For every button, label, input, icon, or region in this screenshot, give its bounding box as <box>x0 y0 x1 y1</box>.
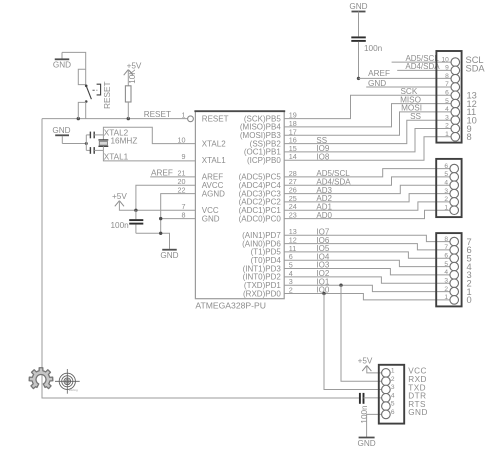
wire: DTR-to-RESET loop (left border + bottom) <box>42 119 360 398</box>
IC top edge <box>194 110 285 112</box>
connector J1 pin 10 <box>451 58 460 67</box>
connector J2 pin 4 <box>450 181 459 190</box>
wire: AD2 from IC to J2 pin 3 <box>284 194 450 202</box>
svg-text:AD4/SDA: AD4/SDA <box>405 62 440 71</box>
svg-text:6: 6 <box>444 253 448 260</box>
connector J3 pin 1 <box>450 296 459 305</box>
svg-text:2: 2 <box>445 123 449 130</box>
svg-text:fritzing: fritzing <box>69 388 78 392</box>
connector J4 pin 6 <box>382 410 391 419</box>
wire: +5V to serial VCC pin 1 <box>367 366 382 373</box>
svg-text:6: 6 <box>391 409 395 416</box>
node: AGND/GND junction <box>159 217 162 220</box>
wire: MOSI from IC pin 17 to ICSP pin 4 <box>284 112 451 135</box>
svg-text:XTAL1: XTAL1 <box>104 153 129 162</box>
svg-text:100n: 100n <box>364 44 383 53</box>
connector J1 pin 9 <box>451 66 460 75</box>
wire: GND to capacitor rail <box>62 143 86 145</box>
wire: pushbutton to RESET net (left leg) <box>78 102 85 118</box>
capacitor C4 100n (AREF) <box>351 12 366 79</box>
wire: IO0 from IC to J3 pin 1 <box>284 294 450 300</box>
connector J1 pin 6 <box>451 91 460 100</box>
wire: IO9 from IC pin 15 to ICSP pin 2 <box>284 129 451 152</box>
svg-text:GND: GND <box>52 126 70 135</box>
svg-text:2: 2 <box>444 196 448 203</box>
pin 1 inversion bubble (RESET) <box>188 116 194 122</box>
svg-text:2: 2 <box>391 376 395 383</box>
svg-text:1: 1 <box>444 204 448 211</box>
svg-text:1: 1 <box>445 131 449 138</box>
power +5V (pull-up) <box>124 62 142 76</box>
wire: +5V to resistor <box>127 70 129 86</box>
wire: GND to ICSP pin 7 <box>366 86 451 88</box>
op-amp/IC U1 ATMEGA328P-PU body <box>195 111 284 299</box>
svg-text:5: 5 <box>445 98 449 105</box>
wire: AD5/SCL to ICSP pin 10 <box>392 61 451 63</box>
OSHW gear logo <box>29 368 53 389</box>
svg-text:9: 9 <box>445 65 449 72</box>
svg-text:3: 3 <box>444 188 448 195</box>
svg-text:10K: 10K <box>128 69 137 84</box>
svg-text:6: 6 <box>445 90 449 97</box>
capacitor C1 (XTAL2, 22p) <box>86 132 103 139</box>
svg-text:0: 0 <box>467 295 472 305</box>
svg-text:+5V: +5V <box>358 356 373 365</box>
wire: XTAL1 to IC pin 9 <box>103 150 195 161</box>
wire: AD5/SCL from IC to J2 pin 6 <box>284 169 450 177</box>
connector J4 pin 2 <box>382 377 391 386</box>
wire: XTAL2 to IC pin 10 <box>103 127 195 143</box>
connector J3 pin 7 <box>450 246 459 255</box>
svg-text:1: 1 <box>391 368 395 375</box>
connector J1 pin 4 <box>451 108 460 117</box>
capacitor C5 100n (DTR auto-reset) <box>360 393 364 404</box>
wire: GND pin 8 <box>161 218 196 220</box>
node: RESET junction at pushbutton <box>77 117 80 120</box>
connector J2 pin 6 <box>450 164 459 173</box>
svg-text:6: 6 <box>444 163 448 170</box>
svg-text:22: 22 <box>178 185 186 194</box>
connector J1 pin 2 <box>451 124 460 133</box>
svg-text:1: 1 <box>444 294 448 301</box>
power +5V (VCC) <box>112 192 127 206</box>
connector J4 serial box <box>379 365 404 424</box>
connector J4 pin 4 <box>382 394 391 403</box>
svg-text:SDA: SDA <box>466 63 486 73</box>
wire: IO6 from IC to J3 pin 7 <box>284 244 450 250</box>
connector J3 pin 3 <box>450 279 459 288</box>
connector J2 pin 1 <box>450 206 459 215</box>
wire: IO7 from IC to J3 pin 8 <box>284 235 450 241</box>
wire: IO8 from IC pin 14 to ICSP pin 1 <box>284 137 451 160</box>
svg-text:4: 4 <box>445 106 449 113</box>
svg-text:GND: GND <box>202 214 220 223</box>
connector J3 pin 6 <box>450 254 459 263</box>
wire: AVCC pin 20 <box>136 185 196 210</box>
svg-text:XTAL2: XTAL2 <box>202 139 226 148</box>
svg-text:4: 4 <box>444 179 448 186</box>
connector J1 pin 8 <box>451 74 460 83</box>
capacitor C3 100n (VCC) <box>129 210 143 233</box>
wire: AD1 from IC to J2 pin 2 <box>284 202 450 210</box>
wire: IO1 from IC to J3 pin 2 <box>284 285 450 291</box>
wire: cap to DTR pin 4 <box>364 397 382 399</box>
svg-text:10: 10 <box>441 56 449 63</box>
wire: AD0 from IC to J2 pin 1 <box>284 210 450 218</box>
wire: RESET net from border to IC pin 1 <box>42 118 187 120</box>
svg-text:GND: GND <box>349 2 367 11</box>
wire: serial GND pin 6 to ground <box>367 414 382 437</box>
connector J4 pin 1 <box>382 369 391 378</box>
svg-text:AGND: AGND <box>202 189 225 198</box>
node: IO1/RXD junction <box>339 284 342 287</box>
wire: MISO from IC pin 18 to ICSP pin 5 <box>284 104 451 127</box>
ground GND (pushbutton) <box>53 52 71 69</box>
svg-text:16MHZ: 16MHZ <box>111 136 138 145</box>
connector J4 pin 5 <box>382 402 391 411</box>
connector J1 pin 5 <box>451 99 460 108</box>
svg-text:GND: GND <box>408 408 428 417</box>
svg-text:3: 3 <box>444 277 448 284</box>
svg-text:8: 8 <box>182 210 186 219</box>
svg-text:5: 5 <box>391 401 395 408</box>
connector J2 pin 2 <box>450 198 459 207</box>
svg-text:1: 1 <box>182 110 186 119</box>
svg-text:GND: GND <box>160 251 178 260</box>
connector J3 box <box>436 233 461 306</box>
connector J3 pin 8 <box>450 237 459 246</box>
svg-text:(ADC0)PC0: (ADC0)PC0 <box>239 214 282 223</box>
node: capacitor rail junction <box>85 142 88 145</box>
svg-text:5: 5 <box>444 171 448 178</box>
ground GND (serial) <box>357 438 375 448</box>
wire: SS from IC pin 16 to ICSP pin 3 <box>284 120 451 143</box>
connector J4 pin 3 <box>382 385 391 394</box>
crystal Q1 16MHZ <box>98 135 108 151</box>
svg-text:+5V: +5V <box>112 192 127 201</box>
svg-text:XTAL1: XTAL1 <box>202 156 226 165</box>
wire: AD4/SDA from IC to J2 pin 5 <box>284 177 450 185</box>
connector J2 box <box>436 159 461 217</box>
wire: pushbutton to RESET net (right leg) <box>85 102 87 119</box>
svg-text:7: 7 <box>444 244 448 251</box>
node: IO0/TXD junction <box>322 292 325 295</box>
svg-text:10: 10 <box>178 135 186 144</box>
wire: cap to GND <box>136 233 170 249</box>
ground GND (crystal caps) <box>52 126 70 144</box>
switch S1 pushbutton RESET <box>78 69 100 102</box>
svg-text:GND: GND <box>53 61 71 70</box>
svg-text:GND: GND <box>357 439 375 448</box>
svg-text:2: 2 <box>444 286 448 293</box>
connector J1 pin 7 <box>451 83 460 92</box>
svg-text:RESET: RESET <box>202 114 229 123</box>
svg-text:(ICP)PB0: (ICP)PB0 <box>247 156 281 165</box>
svg-text:8: 8 <box>445 73 449 80</box>
connector J3 pin 5 <box>450 262 459 271</box>
wire: IO4 from IC to J3 pin 5 <box>284 260 450 266</box>
svg-text:AREF: AREF <box>151 168 173 177</box>
node: VCC junction <box>134 209 137 212</box>
wire: +5V to VCC pin 7 <box>119 201 195 211</box>
wire: AD3 from IC to J2 pin 4 <box>284 185 450 193</box>
node: GND rail junction <box>159 232 162 235</box>
wire: serial RXD to IO1 <box>341 285 382 381</box>
wire: GND to pushbutton <box>62 52 86 85</box>
svg-text:RESET: RESET <box>103 82 112 109</box>
node: AREF junction <box>357 77 360 80</box>
svg-text:AREF: AREF <box>368 69 390 78</box>
wire: AGND pin 22 <box>161 194 196 234</box>
connector J2 pin 3 <box>450 189 459 198</box>
connector J3 pin 4 <box>450 271 459 280</box>
Fritzing target icon <box>55 369 80 394</box>
svg-text:7: 7 <box>445 81 449 88</box>
svg-text:(RXD)PD0: (RXD)PD0 <box>243 289 281 298</box>
svg-text:RESET: RESET <box>144 110 171 119</box>
wire: AREF to ICSP pin 8 <box>359 77 452 79</box>
power +5V (serial) <box>358 356 373 371</box>
svg-text:9: 9 <box>182 152 186 161</box>
capacitor C2 (XTAL1, 22p) <box>86 147 103 154</box>
svg-text:8: 8 <box>444 236 448 243</box>
connector J1 ICSP box <box>436 51 461 143</box>
svg-text:8: 8 <box>467 132 472 142</box>
wire: IO5 from IC to J3 pin 6 <box>284 252 450 258</box>
svg-text:3: 3 <box>391 384 395 391</box>
ground GND (AREF cap) <box>349 2 367 12</box>
resistor R1 10K <box>125 86 131 102</box>
wire: AREF pin 21 <box>150 176 195 178</box>
wire: resistor to RESET net <box>127 102 129 119</box>
svg-text:GND: GND <box>368 79 386 88</box>
svg-text:3: 3 <box>445 114 449 121</box>
svg-text:100n: 100n <box>111 221 130 230</box>
wire: serial TXD to IO0 <box>324 294 382 390</box>
wire: SCK from IC pin 19 to ICSP pin 6 <box>284 95 451 118</box>
ground GND (VCC cap) <box>160 250 178 260</box>
svg-text:5: 5 <box>444 261 448 268</box>
connector J1 pin 1 <box>451 133 460 142</box>
wire: IO3 from IC to J3 pin 4 <box>284 269 450 275</box>
connector J3 pin 2 <box>450 287 459 296</box>
wire: IO2 from IC to J3 pin 3 <box>284 277 450 283</box>
svg-text:4: 4 <box>391 392 395 399</box>
connector J2 pin 5 <box>450 173 459 182</box>
node: RESET junction at resistor <box>127 117 130 120</box>
wire: AD4/SDA to ICSP pin 9 <box>397 69 451 71</box>
wire: capacitor rail <box>85 135 87 151</box>
connector J1 pin 3 <box>451 116 460 125</box>
svg-text:SS: SS <box>410 112 421 121</box>
svg-text:ATMEGA328P-PU: ATMEGA328P-PU <box>195 301 266 311</box>
svg-text:4: 4 <box>444 269 448 276</box>
